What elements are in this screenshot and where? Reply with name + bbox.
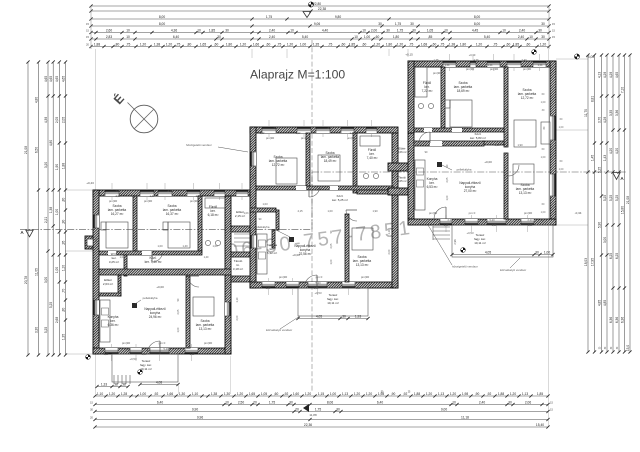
svg-text:1,20: 1,20	[354, 392, 361, 396]
svg-text:7,40 m²: 7,40 m²	[367, 156, 378, 160]
svg-text:7,10: 7,10	[620, 87, 624, 94]
svg-text:21,08: 21,08	[24, 146, 28, 154]
svg-text:10: 10	[197, 28, 201, 32]
svg-text:6,36 m²: 6,36 m²	[108, 323, 119, 327]
svg-text:1,60: 1,60	[293, 392, 300, 396]
svg-text:,60: ,60	[362, 42, 367, 46]
svg-text:3,35: 3,35	[609, 110, 613, 117]
svg-text:,90: ,90	[391, 392, 396, 396]
svg-text:10: 10	[354, 35, 358, 39]
svg-text:1,20: 1,20	[140, 42, 147, 46]
svg-text:pm|90: pm|90	[266, 136, 275, 140]
unit3 entry steps	[433, 226, 450, 228]
svg-text:2,05: 2,05	[177, 309, 180, 314]
svg-text:pm|90: pm|90	[301, 136, 310, 140]
svg-text:1,00: 1,00	[157, 244, 163, 248]
svg-text:1,10: 1,10	[192, 392, 199, 396]
svg-text:1,20: 1,20	[251, 174, 255, 180]
svg-text:1,00: 1,00	[364, 35, 371, 39]
svg-text:1,80: 1,80	[393, 35, 400, 39]
svg-text:1,20: 1,20	[476, 42, 483, 46]
svg-text:,75: ,75	[126, 42, 131, 46]
svg-text:8,00: 8,00	[159, 15, 166, 19]
svg-text:1,35: 1,35	[61, 334, 65, 341]
unit2 windows top	[262, 127, 276, 133]
svg-text:8,00: 8,00	[159, 22, 166, 26]
svg-text:1,00: 1,00	[330, 392, 337, 396]
svg-text:,60: ,60	[341, 42, 346, 46]
svg-text:30: 30	[217, 35, 221, 39]
svg-text:9,96: 9,96	[197, 415, 204, 419]
svg-text:1,00: 1,00	[212, 244, 218, 248]
svg-text:1,90: 1,90	[517, 143, 523, 147]
svg-text:5,40: 5,40	[163, 347, 169, 351]
svg-text:1,38: 1,38	[211, 392, 218, 396]
svg-text:1,88: 1,88	[498, 392, 505, 396]
unit2 windows left	[250, 152, 256, 166]
svg-text:4,20: 4,20	[615, 148, 619, 155]
unit3 windows right	[550, 116, 556, 140]
svg-text:1,88: 1,88	[61, 163, 65, 170]
svg-text:közvetkelyű vendsor: közvetkelyű vendsor	[266, 328, 292, 332]
svg-text:2,00: 2,00	[236, 315, 239, 320]
svg-text:+0,53: +0,53	[466, 231, 474, 235]
svg-text:1,85: 1,85	[513, 42, 520, 46]
svg-text:2,83: 2,83	[106, 35, 113, 39]
svg-text:22,36: 22,36	[304, 423, 312, 427]
svg-text:4,13: 4,13	[597, 72, 601, 79]
svg-text:21,08: 21,08	[626, 196, 630, 204]
svg-text:1,93: 1,93	[355, 314, 362, 318]
svg-text:15,40: 15,40	[536, 423, 544, 427]
svg-text:2,40: 2,40	[479, 400, 486, 404]
svg-text:6,25: 6,25	[615, 253, 619, 260]
svg-text:1,88: 1,88	[414, 392, 421, 396]
svg-text:1,00: 1,00	[446, 195, 449, 200]
svg-text:5,90: 5,90	[597, 222, 601, 229]
svg-text:6,36: 6,36	[609, 317, 613, 324]
svg-text:+0,00: +0,00	[292, 253, 300, 257]
svg-text:5,40: 5,40	[484, 35, 491, 39]
svg-text:6,40: 6,40	[377, 400, 384, 404]
level triangle 22,38	[303, 12, 311, 18]
unit2 vestibule (top right)	[388, 163, 414, 171]
svg-text:+3,00: +3,00	[586, 55, 595, 59]
svg-text:6,18 m²: 6,18 m²	[208, 213, 219, 217]
long dashed axis x=312	[311, 40, 313, 392]
svg-text:22,56 m²: 22,56 m²	[299, 252, 312, 256]
svg-text:1,66: 1,66	[167, 392, 174, 396]
svg-text:1,30: 1,30	[350, 132, 355, 135]
svg-text:1,03: 1,03	[244, 212, 249, 215]
svg-text:,60: ,60	[274, 392, 279, 396]
svg-text:4,45: 4,45	[472, 28, 479, 32]
svg-text:pelletkályha: pelletkályha	[143, 296, 158, 300]
section line A-A	[20, 228, 312, 230]
svg-text:10,11 m²: 10,11 m²	[474, 241, 486, 245]
svg-text:4,36: 4,36	[167, 189, 173, 193]
bottom dimension lines	[95, 395, 548, 397]
svg-text:30: 30	[538, 28, 542, 32]
svg-text:pelletkályha: pelletkályha	[255, 225, 270, 229]
svg-text:1,13: 1,13	[522, 392, 529, 396]
svg-text:ker. 5,25 m²: ker. 5,25 m²	[332, 198, 348, 202]
svg-text:2,40: 2,40	[521, 58, 527, 62]
svg-text:1,85: 1,85	[209, 28, 216, 32]
svg-text:2,40: 2,40	[269, 35, 276, 39]
svg-text:5,25: 5,25	[603, 195, 607, 202]
svg-text:6,25: 6,25	[609, 253, 613, 260]
svg-text:+0,00: +0,00	[484, 160, 492, 164]
svg-text:2,40: 2,40	[277, 281, 283, 285]
svg-text:2,40: 2,40	[519, 28, 526, 32]
svg-text:11,70: 11,70	[584, 109, 588, 117]
svg-text:5,25: 5,25	[44, 327, 48, 334]
svg-text:22,38: 22,38	[318, 7, 326, 11]
svg-text:1,00: 1,00	[541, 101, 546, 104]
svg-text:+0,15: +0,15	[405, 53, 413, 57]
svg-text:2,40: 2,40	[518, 35, 525, 39]
svg-text:1,80: 1,80	[460, 42, 467, 46]
svg-text:4,36: 4,36	[327, 126, 333, 130]
svg-text:1,50: 1,50	[142, 353, 147, 356]
svg-text:2,05: 2,05	[55, 117, 59, 124]
svg-text:pm|90: pm|90	[204, 341, 213, 345]
svg-text:,95: ,95	[61, 241, 65, 246]
svg-text:,90: ,90	[61, 220, 65, 225]
svg-text:,80: ,80	[61, 308, 65, 313]
svg-text:6,40: 6,40	[173, 35, 180, 39]
svg-text:,75: ,75	[440, 42, 445, 46]
svg-text:2,60: 2,60	[273, 126, 279, 130]
svg-text:2,21: 2,21	[44, 217, 48, 224]
svg-text:6,53 m²: 6,53 m²	[427, 185, 438, 189]
svg-text:4,15: 4,15	[443, 143, 449, 147]
svg-text:1,80: 1,80	[226, 42, 233, 46]
unit1 windows bottom	[105, 348, 118, 354]
svg-text:30: 30	[410, 22, 414, 26]
svg-text:27,00 m²: 27,00 m²	[464, 189, 477, 193]
svg-text:2,05: 2,05	[446, 177, 449, 182]
svg-text:1,30: 1,30	[224, 392, 231, 396]
svg-text:,75: ,75	[277, 42, 282, 46]
svg-text:pm 0: pm 0	[469, 211, 476, 215]
svg-text:1,00: 1,00	[300, 42, 307, 46]
svg-text:2,40: 2,40	[447, 218, 453, 222]
svg-text:2,05: 2,05	[330, 243, 333, 248]
svg-text:9,80: 9,80	[335, 15, 342, 19]
svg-text:9,06: 9,06	[314, 22, 321, 26]
svg-text:30: 30	[336, 407, 340, 411]
svg-text:1,00: 1,00	[55, 267, 59, 274]
svg-text:1,75: 1,75	[397, 28, 404, 32]
svg-text:,75: ,75	[409, 42, 414, 46]
svg-text:5,25: 5,25	[49, 302, 53, 309]
svg-text:1,00: 1,00	[544, 250, 551, 254]
svg-text:6,36: 6,36	[620, 317, 624, 324]
svg-text:13,13 m²: 13,13 m²	[199, 327, 212, 331]
svg-text:,80: ,80	[115, 42, 120, 46]
north symbol	[130, 105, 158, 133]
terrace 2	[298, 288, 368, 316]
svg-text:2,60: 2,60	[115, 189, 121, 193]
benchmark near unit3 top-right	[534, 50, 536, 52]
svg-text:4,20: 4,20	[609, 148, 613, 155]
svg-text:1,45: 1,45	[590, 155, 594, 162]
svg-text:1,65: 1,65	[249, 392, 256, 396]
svg-text:30: 30	[508, 400, 512, 404]
svg-text:1,20: 1,20	[540, 42, 547, 46]
svg-text:38: 38	[122, 382, 126, 386]
unit2 kitchen counter	[257, 234, 267, 274]
svg-text:1,20: 1,20	[374, 42, 381, 46]
svg-text:6,32 m²: 6,32 m²	[267, 251, 277, 255]
svg-text:17,95: 17,95	[590, 258, 594, 266]
unit2 door arcs	[309, 186, 320, 197]
UNIT 2 walls	[250, 127, 398, 133]
svg-text:1,43: 1,43	[603, 155, 607, 162]
svg-text:1,30: 1,30	[538, 64, 543, 67]
svg-text:3,18 m²: 3,18 m²	[233, 267, 243, 271]
svg-text:6,40: 6,40	[157, 400, 164, 404]
svg-text:1,38: 1,38	[49, 207, 53, 214]
svg-text:1,20: 1,20	[528, 224, 533, 227]
svg-text:1,90: 1,90	[372, 209, 378, 213]
svg-text:18,03: 18,03	[584, 258, 588, 266]
unit3 interior walls	[441, 67, 445, 128]
svg-text:1,00: 1,00	[541, 156, 546, 159]
svg-text:1,20: 1,20	[450, 392, 457, 396]
svg-text:1,75: 1,75	[269, 400, 276, 404]
svg-text:,75: ,75	[328, 42, 333, 46]
svg-text:2,40: 2,40	[527, 218, 533, 222]
svg-text:6,36: 6,36	[615, 317, 619, 324]
svg-text:1,20: 1,20	[296, 132, 301, 135]
svg-text:15,0: 15,0	[626, 345, 630, 352]
svg-text:+0,10: +0,10	[469, 53, 476, 57]
svg-text:30: 30	[541, 22, 545, 26]
svg-text:1,50: 1,50	[314, 287, 319, 290]
svg-text:Tároló: Tároló	[398, 175, 406, 179]
svg-text:4,29: 4,29	[603, 117, 607, 124]
svg-text:1,13: 1,13	[438, 392, 445, 396]
svg-text:4,46: 4,46	[227, 317, 231, 323]
svg-text:,92: ,92	[284, 392, 289, 396]
svg-text:1,40: 1,40	[182, 244, 188, 248]
svg-text:1,03: 1,03	[262, 202, 268, 206]
svg-text:1,90: 1,90	[55, 164, 59, 171]
svg-text:24,96 m²: 24,96 m²	[149, 315, 162, 319]
unit3 windows bottom	[440, 219, 452, 225]
svg-text:9,00: 9,00	[441, 407, 448, 411]
svg-text:,60: ,60	[526, 42, 531, 46]
left dimension lines	[27, 62, 29, 355]
unit1 furniture	[106, 222, 128, 248]
+3,00 benchmark top right	[577, 54, 580, 57]
svg-text:18,69 m²: 18,69 m²	[457, 89, 470, 93]
svg-text:3,25 m²: 3,25 m²	[109, 260, 119, 264]
svg-text:1,75: 1,75	[395, 22, 402, 26]
svg-text:1,75: 1,75	[315, 407, 322, 411]
svg-text:1,03: 1,03	[120, 256, 125, 259]
svg-text:2,00: 2,00	[371, 28, 378, 32]
svg-text:1,00: 1,00	[541, 211, 546, 214]
svg-text:5,40: 5,40	[489, 218, 495, 222]
svg-text:közvetkelyű vendsor: közvetkelyű vendsor	[500, 268, 526, 272]
unit2 windows bottom	[262, 282, 275, 288]
svg-text:2,06: 2,06	[525, 400, 532, 404]
svg-text:1,20: 1,20	[287, 42, 294, 46]
svg-text:1,15: 1,15	[318, 392, 325, 396]
unit3 furniture	[450, 100, 472, 127]
svg-text:1,88: 1,88	[94, 42, 101, 46]
svg-text:pm|90: pm|90	[466, 67, 475, 71]
svg-text:1,00: 1,00	[494, 143, 500, 147]
svg-text:+0,43: +0,43	[86, 181, 94, 185]
svg-text:13,13 m²: 13,13 m²	[519, 191, 532, 195]
svg-text:,60: ,60	[214, 42, 219, 46]
svg-text:5,25: 5,25	[615, 195, 619, 202]
svg-text:4,65: 4,65	[44, 76, 48, 83]
svg-text:,90: ,90	[475, 392, 480, 396]
svg-text:4,65: 4,65	[55, 76, 59, 83]
svg-text:+0,00: +0,00	[156, 285, 164, 289]
svg-text:1,00: 1,00	[330, 259, 333, 264]
svg-text:6,50: 6,50	[34, 147, 38, 154]
svg-text:1,20: 1,20	[366, 392, 373, 396]
svg-text:2,96: 2,96	[453, 239, 457, 245]
svg-text:hőszigetelő vendsor: hőszigetelő vendsor	[186, 143, 212, 147]
svg-text:4,46: 4,46	[393, 247, 397, 253]
svg-text:1,50: 1,50	[492, 224, 497, 227]
svg-text:1,13: 1,13	[342, 392, 349, 396]
svg-text:1,68: 1,68	[421, 42, 428, 46]
svg-text:1,30: 1,30	[260, 132, 265, 135]
svg-text:,60: ,60	[266, 42, 271, 46]
svg-text:1,05: 1,05	[427, 28, 434, 32]
svg-text:30: 30	[342, 314, 346, 318]
right dimension lines	[587, 55, 589, 352]
svg-text:1,75: 1,75	[433, 58, 439, 62]
svg-text:2,40: 2,40	[269, 28, 276, 32]
svg-text:1,33: 1,33	[101, 382, 108, 386]
svg-text:4,05: 4,05	[485, 250, 492, 254]
svg-text:1,10: 1,10	[414, 144, 419, 147]
svg-text:1,70: 1,70	[409, 106, 413, 112]
svg-text:,80: ,80	[187, 42, 192, 46]
terrace 1	[112, 354, 178, 382]
unit1 windows top	[105, 190, 119, 196]
svg-text:1,10: 1,10	[388, 229, 391, 234]
svg-text:1,30: 1,30	[445, 64, 450, 67]
svg-text:1,20: 1,20	[240, 42, 247, 46]
extension stubs / witness lines	[65, 189, 93, 191]
svg-text:,92: ,92	[487, 392, 492, 396]
svg-text:1,35: 1,35	[94, 237, 98, 243]
svg-text:pm|90: pm|90	[523, 67, 532, 71]
svg-text:8,06: 8,06	[327, 400, 334, 404]
svg-text:18,49 m²: 18,49 m²	[324, 159, 337, 163]
svg-text:1,38: 1,38	[449, 42, 456, 46]
svg-text:1,85: 1,85	[537, 392, 544, 396]
svg-text:2,40: 2,40	[357, 281, 363, 285]
svg-text:10: 10	[452, 400, 456, 404]
svg-text:4,80: 4,80	[49, 140, 53, 147]
svg-text:1,20: 1,20	[397, 42, 404, 46]
svg-text:4,39: 4,39	[44, 117, 48, 124]
svg-text:4,65: 4,65	[49, 76, 53, 83]
svg-text:pm|90: pm|90	[122, 341, 131, 345]
svg-text:,60: ,60	[432, 42, 437, 46]
svg-text:2,60: 2,60	[106, 28, 113, 32]
svg-text:1,20: 1,20	[166, 42, 173, 46]
svg-text:3,06 m²: 3,06 m²	[397, 150, 406, 154]
svg-text:pm|90: pm|90	[144, 199, 153, 203]
svg-text:30: 30	[378, 22, 382, 26]
svg-text:1,20: 1,20	[305, 392, 312, 396]
svg-text:1,20: 1,20	[510, 392, 517, 396]
svg-text:pm|90: pm|90	[429, 211, 438, 215]
svg-text:8,00: 8,00	[474, 22, 481, 26]
svg-text:1,65: 1,65	[200, 42, 207, 46]
svg-text:4,08: 4,08	[156, 380, 163, 384]
svg-text:3,70: 3,70	[597, 117, 601, 124]
unit1 vestibule	[231, 226, 256, 232]
svg-text:hőszigetelő vendsor: hőszigetelő vendsor	[452, 265, 478, 269]
svg-text:1,00: 1,00	[140, 392, 147, 396]
svg-text:1,20: 1,20	[104, 353, 109, 356]
svg-text:10: 10	[225, 400, 229, 404]
svg-text:12,72 m²: 12,72 m²	[272, 163, 285, 167]
svg-text:1,00: 1,00	[55, 209, 59, 216]
svg-text:3,36: 3,36	[615, 110, 619, 117]
svg-text:3,20: 3,20	[44, 162, 48, 169]
svg-text:Előtér: Előtér	[398, 146, 405, 150]
svg-text:pm|90: pm|90	[524, 211, 533, 215]
unit1 kitchen counter	[100, 300, 110, 342]
bottom level triangle	[303, 404, 309, 412]
svg-text:pm|90: pm|90	[490, 67, 499, 71]
unit1 right wall window	[225, 302, 231, 316]
svg-text:ker. 5,83 m²: ker. 5,83 m²	[470, 136, 486, 140]
svg-text:5,40: 5,40	[315, 281, 321, 285]
svg-text:11,18: 11,18	[461, 415, 469, 419]
terrace 1 steps	[113, 375, 115, 384]
svg-text:4,65: 4,65	[615, 72, 619, 79]
svg-text:1,10: 1,10	[236, 297, 239, 302]
UNIT 1 walls	[93, 190, 256, 196]
svg-text:pm|90: pm|90	[279, 275, 288, 279]
svg-text:2,60: 2,60	[116, 195, 121, 198]
svg-text:30: 30	[289, 400, 293, 404]
svg-text:1,75: 1,75	[196, 195, 201, 198]
svg-text:1,98: 1,98	[462, 392, 469, 396]
svg-text:10: 10	[126, 28, 130, 32]
svg-text:pm 0: pm 0	[159, 341, 166, 345]
svg-text:10: 10	[362, 28, 366, 32]
UNIT 3 walls	[408, 61, 556, 67]
svg-text:1,10: 1,10	[226, 195, 231, 198]
svg-text:30: 30	[386, 28, 390, 32]
svg-text:2,63 m²: 2,63 m²	[103, 282, 113, 286]
unit3 kitchen counter	[415, 160, 425, 210]
svg-text:4,36: 4,36	[473, 58, 479, 62]
svg-text:10: 10	[529, 35, 533, 39]
svg-text:1,20: 1,20	[356, 287, 361, 290]
svg-text:pelletkályha: pelletkályha	[457, 168, 472, 172]
svg-text:10: 10	[126, 35, 130, 39]
svg-text:1,20: 1,20	[237, 392, 244, 396]
